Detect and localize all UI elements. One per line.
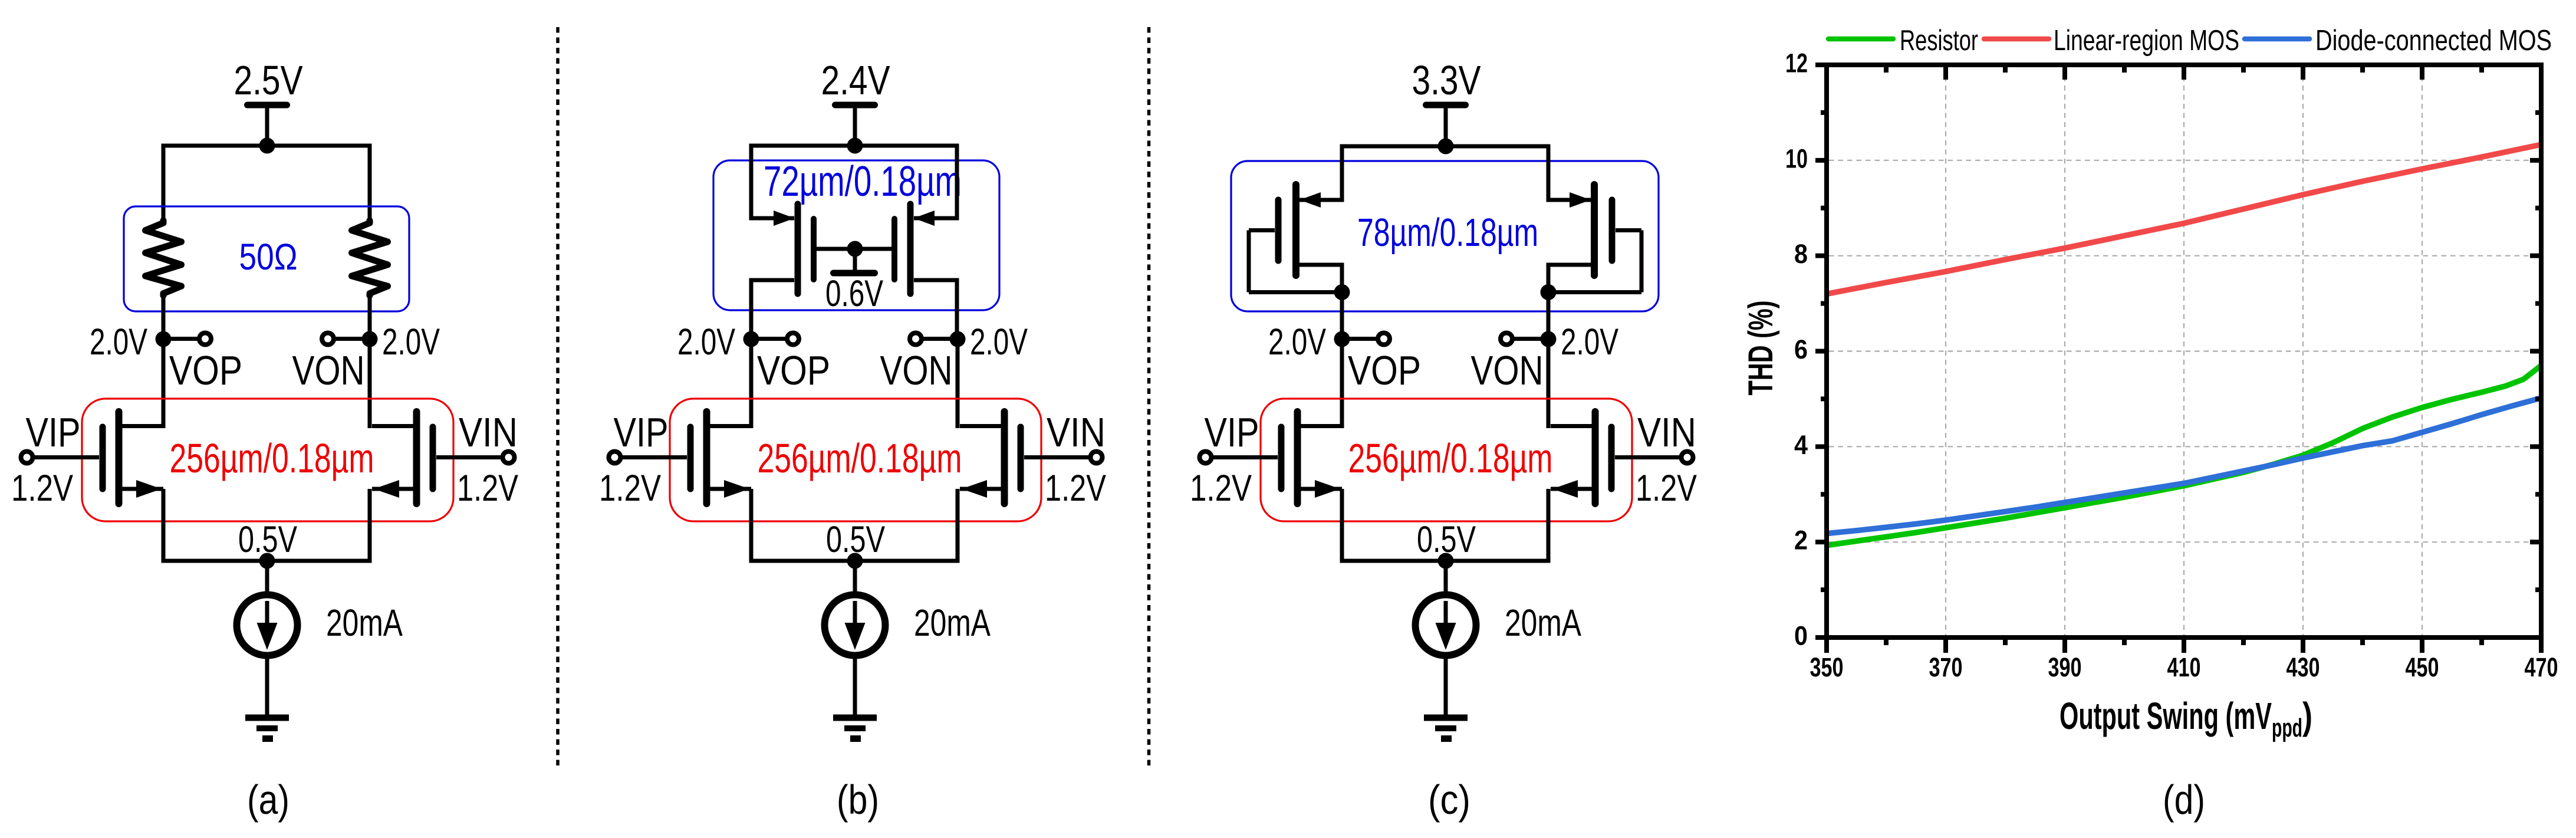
svg-text:2.5V: 2.5V [234,57,303,103]
svg-text:3.3V: 3.3V [1412,57,1481,103]
svg-text:1.2V: 1.2V [11,468,73,509]
svg-text:6: 6 [1794,334,1808,364]
svg-text:(c): (c) [1428,777,1470,823]
svg-text:350: 350 [1810,652,1844,682]
svg-text:Output Swing (mV: Output Swing (mV [2060,695,2272,737]
svg-text:VOP: VOP [169,347,242,393]
svg-text:450: 450 [2406,652,2439,682]
svg-text:12: 12 [1785,48,1808,78]
svg-text:2: 2 [1794,525,1808,556]
svg-text:8: 8 [1794,239,1808,269]
svg-text:410: 410 [2167,652,2201,682]
svg-text:(a): (a) [247,777,289,823]
svg-text:4: 4 [1794,430,1808,460]
svg-text:(d): (d) [2163,777,2205,823]
svg-text:Resistor: Resistor [1900,25,1978,57]
svg-text:0.5V: 0.5V [238,519,297,560]
svg-text:20mA: 20mA [326,602,403,644]
svg-text:2.0V: 2.0V [90,321,147,363]
svg-text:50Ω: 50Ω [239,236,298,278]
svg-text:72µm/0.18µm: 72µm/0.18µm [764,158,962,205]
svg-text:2.4V: 2.4V [821,57,890,103]
svg-text:ppd: ppd [2272,714,2302,742]
svg-text:430: 430 [2287,652,2320,682]
svg-text:VIP: VIP [26,409,81,455]
svg-text:470: 470 [2525,652,2558,682]
svg-text:1.2V: 1.2V [457,468,518,509]
svg-text:0.6V: 0.6V [825,273,883,314]
svg-text:Linear-region MOS: Linear-region MOS [2054,25,2239,57]
svg-text:VON: VON [292,347,365,393]
svg-text:Diode-connected MOS: Diode-connected MOS [2315,25,2552,57]
svg-text:): ) [2302,695,2312,737]
svg-text:370: 370 [1929,652,1963,682]
svg-text:78µm/0.18µm: 78µm/0.18µm [1357,211,1538,255]
svg-text:256µm/0.18µm: 256µm/0.18µm [170,435,374,481]
svg-text:390: 390 [2048,652,2082,682]
svg-text:10: 10 [1785,143,1808,173]
svg-text:VIN: VIN [459,409,518,455]
svg-text:(b): (b) [837,777,879,823]
svg-text:0: 0 [1794,621,1808,651]
svg-text:2.0V: 2.0V [382,321,440,363]
svg-text:THD (%): THD (%) [1742,301,1780,396]
